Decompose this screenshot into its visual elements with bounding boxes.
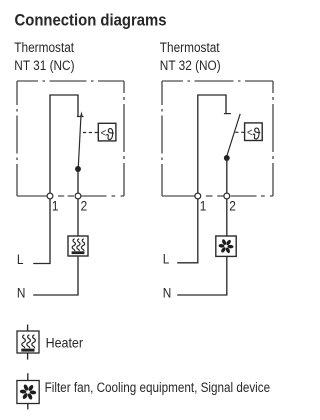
legend heater symbol with stubs [17,325,39,360]
legend fan symbol with stubs [17,373,39,409]
wire: junction to terminal 2 (NT31) [77,169,79,193]
junction dot (NT31) [75,166,81,172]
wire: terminal 2 to fan (NT32) [226,199,228,236]
fixed contact tick (NT32) [224,113,231,115]
svg-text:Thermostat: Thermostat [14,39,74,55]
wire: NT31 terminal 1 up, across, stub down to fixed contact [50,95,78,193]
dashed actuation link (NT32) [235,131,244,133]
thermostat NT32 enclosure (dash-dot boundary) [162,81,273,196]
terminal 2 (NT32) [224,193,236,214]
temperature sensor box <ϑ (NT31) [98,123,116,144]
switch blade NC (NT31) with arrow tip [78,111,82,167]
thermostat NT31 enclosure (dash-dot boundary) [17,81,124,196]
svg-text:L: L [163,251,170,267]
svg-text:N: N [163,285,172,301]
svg-text:2: 2 [229,198,236,214]
heater load symbol (NT31 circuit) [68,236,88,256]
svg-text:2: 2 [81,198,88,214]
svg-text:NT 32 (NO): NT 32 (NO) [160,57,221,73]
svg-text:N: N [17,285,26,301]
svg-text:Heater: Heater [46,335,84,351]
label: Thermostat NT 32 (NO) [160,39,221,73]
terminal 2 (NT31) [75,193,87,214]
wire: NT32 terminal 1 up, across, stub down to fixed contact [198,95,226,193]
svg-text:Filter fan, Cooling equipment,: Filter fan, Cooling equipment, Signal de… [45,379,271,395]
wire: fan to N (NT32) [177,256,227,295]
svg-text:1: 1 [52,198,59,214]
svg-text:L: L [17,251,24,267]
svg-text:Thermostat: Thermostat [160,39,220,55]
wire: heater to N (NT31) [33,256,78,295]
dashed actuation link (NT31) [83,132,98,134]
label: Thermostat NT 31 (NC) [14,39,74,73]
wire: terminal 1 to L (NT31) [33,199,50,264]
temperature sensor box <ϑ (NT32) [245,123,263,144]
terminal 1 (NT31) [47,193,58,214]
junction dot (NT32) [224,155,230,161]
svg-text:NT 31 (NC): NT 31 (NC) [14,57,74,73]
wire: terminal 1 to L (NT32) [177,199,198,263]
fixed contact tick (NT31) [77,116,84,118]
fan load symbol (NT32 circuit) [216,236,236,256]
wire: terminal 2 to heater (NT31) [77,199,79,236]
svg-text:Connection diagrams: Connection diagrams [15,12,167,30]
switch blade NO (NT32) [227,114,240,156]
terminal 1 (NT32) [195,193,206,214]
wire: junction to terminal 2 (NT32) [226,158,228,193]
svg-text:1: 1 [200,198,207,214]
